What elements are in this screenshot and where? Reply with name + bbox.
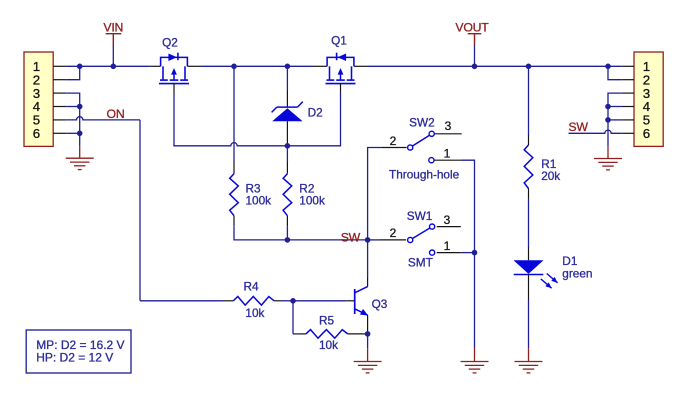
svg-text:SW: SW — [568, 120, 588, 134]
svg-text:R5: R5 — [319, 314, 335, 328]
svg-text:VIN: VIN — [103, 21, 123, 35]
svg-text:Q3: Q3 — [372, 297, 388, 311]
svg-text:2: 2 — [390, 226, 397, 240]
svg-text:3: 3 — [445, 119, 452, 133]
svg-text:2: 2 — [390, 134, 397, 148]
svg-text:SW: SW — [341, 231, 361, 245]
svg-text:green: green — [562, 267, 592, 281]
svg-text:SMT: SMT — [408, 255, 433, 269]
svg-text:D2: D2 — [308, 106, 323, 120]
svg-text:Through-hole: Through-hole — [389, 167, 460, 181]
svg-text:1: 1 — [444, 239, 451, 253]
svg-text:6: 6 — [643, 126, 650, 141]
svg-text:VOUT: VOUT — [455, 21, 489, 35]
svg-text:3: 3 — [444, 213, 451, 227]
svg-text:6: 6 — [33, 126, 40, 141]
svg-text:10k: 10k — [319, 338, 338, 352]
svg-text:SW2: SW2 — [409, 116, 435, 130]
svg-text:20k: 20k — [541, 169, 560, 183]
svg-text:Q2: Q2 — [162, 35, 178, 49]
svg-text:10k: 10k — [245, 306, 264, 320]
svg-text:1: 1 — [444, 146, 451, 160]
svg-text:R4: R4 — [244, 279, 260, 293]
svg-text:100k: 100k — [299, 194, 325, 208]
svg-text:Q1: Q1 — [331, 34, 347, 48]
svg-text:HP: D2 = 12 V: HP: D2 = 12 V — [36, 350, 113, 364]
svg-text:100k: 100k — [246, 194, 272, 208]
svg-text:SW1: SW1 — [407, 209, 433, 223]
svg-text:ON: ON — [107, 107, 125, 121]
